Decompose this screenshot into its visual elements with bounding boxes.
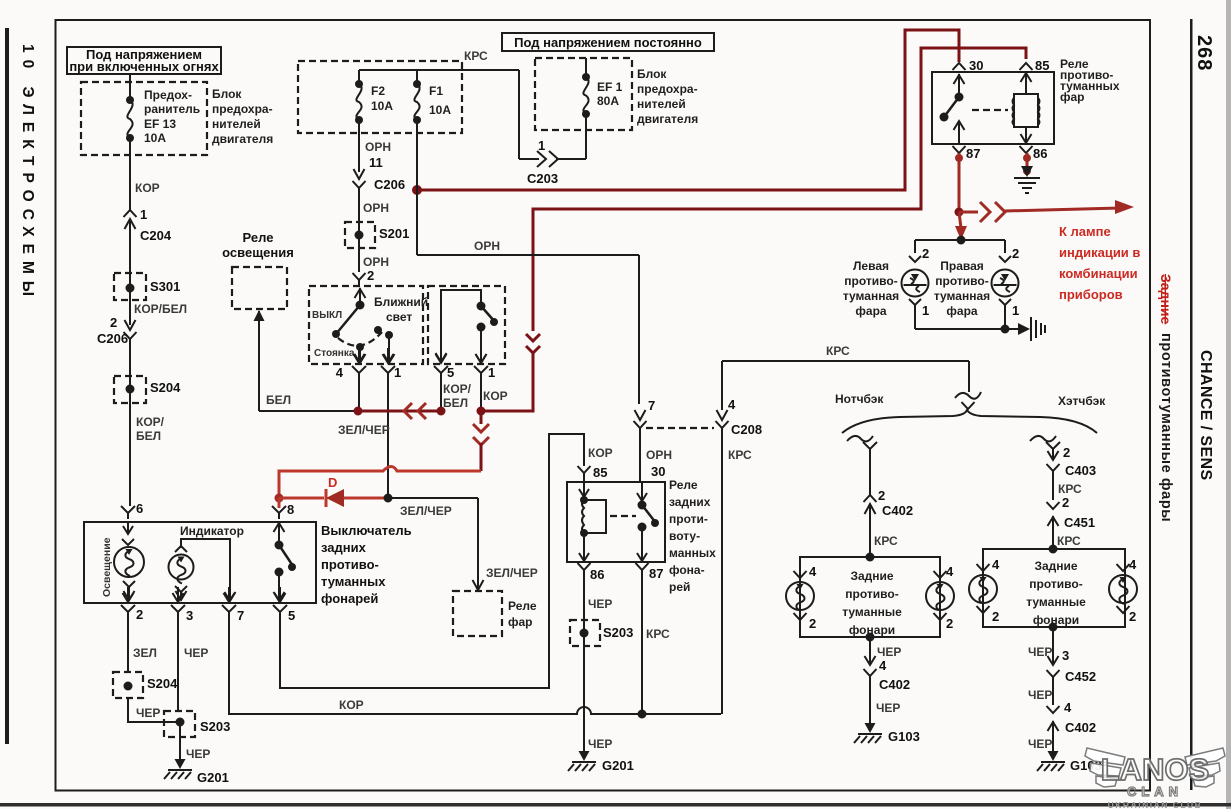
svg-text:268: 268 xyxy=(1193,35,1215,71)
svg-text:КРС: КРС xyxy=(1057,534,1081,548)
hatchback left lamp xyxy=(969,557,1000,624)
svg-text:Выключатель: Выключатель xyxy=(321,523,412,538)
red jumper pin5-pin4 xyxy=(358,403,446,419)
svg-text:2: 2 xyxy=(367,268,374,283)
svg-text:2: 2 xyxy=(878,488,885,503)
svg-text:КОР: КОР xyxy=(339,698,364,712)
switch pin 5 xyxy=(273,587,295,623)
rear fog lamps box notchback xyxy=(800,553,940,638)
svg-text:10А: 10А xyxy=(429,103,451,117)
svg-text:фара: фара xyxy=(946,304,978,318)
svg-text:Освещение: Освещение xyxy=(101,537,113,597)
svg-text:EF 13: EF 13 xyxy=(144,117,176,131)
svg-text:C204: C204 xyxy=(140,228,172,243)
svg-text:G103: G103 xyxy=(888,729,920,744)
svg-text:C402: C402 xyxy=(882,503,913,518)
svg-text:C451: C451 xyxy=(1064,515,1095,530)
svg-text:фона-: фона- xyxy=(669,563,705,577)
svg-text:Стоянка: Стоянка xyxy=(314,348,355,359)
svg-text:C402: C402 xyxy=(879,677,910,692)
svg-text:манных: манных xyxy=(669,546,716,560)
label Блок предохранителей двигателя (left) xyxy=(212,87,273,146)
svg-text:КОР: КОР xyxy=(588,446,613,460)
red node on БЕЛ wire xyxy=(354,407,363,416)
svg-text:Индикатор: Индикатор xyxy=(180,524,244,538)
svg-text:задних: задних xyxy=(321,540,367,555)
svg-text:противо-: противо- xyxy=(321,557,379,572)
svg-text:фар: фар xyxy=(1060,90,1085,104)
ground below 86 xyxy=(1014,166,1040,193)
svg-text:2: 2 xyxy=(1129,609,1136,624)
black wire F1 to C208 xyxy=(417,120,639,404)
wire ОРН 11 xyxy=(359,120,391,172)
svg-text:30: 30 xyxy=(651,464,665,479)
svg-text:4: 4 xyxy=(1129,557,1137,572)
svg-text:Под напряжением постоянно: Под напряжением постоянно xyxy=(514,35,702,50)
splice S201 xyxy=(345,201,409,248)
red indicator branch xyxy=(959,200,1134,222)
svg-text:туманные: туманные xyxy=(842,605,902,619)
red node on КОР wire xyxy=(477,407,486,416)
svg-text:проти-: проти- xyxy=(669,512,708,526)
wire to connector C203 xyxy=(519,70,586,186)
switch pin 1 КОР xyxy=(474,348,508,411)
svg-text:C203: C203 xyxy=(527,171,558,186)
svg-text:Реле: Реле xyxy=(508,599,537,613)
svg-text:S201: S201 xyxy=(379,226,409,241)
svg-text:C208: C208 xyxy=(731,422,762,437)
svg-text:1: 1 xyxy=(1012,303,1019,318)
svg-text:LANOS: LANOS xyxy=(1101,752,1210,787)
dashed link contact-coil xyxy=(972,109,1008,111)
svg-text:10 ЭЛЕКТРОСХЕМЫ: 10 ЭЛЕКТРОСХЕМЫ xyxy=(19,44,36,303)
illumination lamp xyxy=(114,522,144,600)
red note К лампе индикации xyxy=(1059,224,1140,302)
long КОР harness wire xyxy=(229,617,721,719)
rear relay coil xyxy=(579,496,606,561)
svg-text:Задние: Задние xyxy=(850,569,893,583)
wire КОР/БЕЛ xyxy=(134,302,187,316)
LANOS CLAN watermark xyxy=(1085,748,1225,787)
light switch dashed box right xyxy=(428,286,505,364)
bright red run to pin 8 with bridge xyxy=(275,467,482,503)
svg-text:F1: F1 xyxy=(429,84,443,98)
svg-text:6: 6 xyxy=(136,501,143,516)
svg-text:двигателя: двигателя xyxy=(212,132,273,146)
svg-text:85: 85 xyxy=(593,465,607,480)
svg-text:30: 30 xyxy=(969,58,983,73)
svg-text:10А: 10А xyxy=(371,99,393,113)
svg-text:ЧЕР: ЧЕР xyxy=(136,706,160,720)
svg-text:КРС: КРС xyxy=(826,344,850,358)
svg-text:КРС: КРС xyxy=(874,534,898,548)
relay pin 86 xyxy=(578,563,613,758)
svg-text:4: 4 xyxy=(728,397,736,412)
svg-text:Задние: Задние xyxy=(1034,559,1077,573)
red drop from КОР node xyxy=(473,411,489,471)
svg-text:противо-: противо- xyxy=(1029,577,1082,591)
Реле освещения dashed box xyxy=(222,230,294,309)
svg-text:ранитель: ранитель xyxy=(144,102,200,116)
header box: Под напряжением при включенных огнях xyxy=(67,47,221,74)
hatchback branch chain xyxy=(1030,436,1096,549)
switch pin 5 КОР/БЕЛ xyxy=(434,348,472,411)
svg-text:G201: G201 xyxy=(197,770,229,785)
relay pin 86 xyxy=(1020,146,1048,161)
rear fog relay box xyxy=(567,478,716,594)
svg-text:ЧЕР: ЧЕР xyxy=(588,597,612,611)
svg-text:задних: задних xyxy=(669,495,711,509)
rear relay contact xyxy=(637,482,659,561)
svg-text:1: 1 xyxy=(140,207,147,222)
hatchback right lamp xyxy=(1109,557,1137,624)
svg-text:2: 2 xyxy=(1012,246,1019,261)
svg-text:4: 4 xyxy=(992,557,1000,572)
svg-text:3: 3 xyxy=(1062,648,1069,663)
light switch dashed box left xyxy=(309,286,423,364)
red wire 86 to ground xyxy=(1023,153,1031,175)
svg-text:КОР/: КОР/ xyxy=(136,415,165,429)
junction ЗЕЛ/ЧЕР node xyxy=(384,494,393,503)
wire ОРН C208 to rear relay 30 xyxy=(640,428,672,482)
svg-text:87: 87 xyxy=(966,146,980,161)
svg-text:Блок: Блок xyxy=(637,67,667,81)
svg-text:освещения: освещения xyxy=(222,245,294,260)
svg-text:рей: рей xyxy=(669,580,690,594)
ground G201 rear relay xyxy=(568,737,634,773)
header box Под напряжением постоянно xyxy=(502,33,714,51)
svg-text:ЗЕЛ/ЧЕР: ЗЕЛ/ЧЕР xyxy=(400,504,452,518)
red wire C 87 to lamps xyxy=(955,153,968,240)
front fog relay box xyxy=(932,57,1120,144)
svg-text:БЕЛ: БЕЛ xyxy=(136,429,161,443)
svg-text:2: 2 xyxy=(922,246,929,261)
fuse EF13 10A xyxy=(126,74,200,145)
wire ЗЕЛ/ЧЕР to headlamp relay xyxy=(388,498,538,590)
relay pin 30 xyxy=(953,58,984,96)
svg-text:86: 86 xyxy=(1033,146,1047,161)
svg-text:приборов: приборов xyxy=(1059,287,1123,302)
splice S204 upper xyxy=(114,376,181,506)
relay pin 87 xyxy=(953,146,981,161)
switch pin 3 xyxy=(171,587,193,623)
svg-text:C402: C402 xyxy=(1065,720,1096,735)
relay pin 85 xyxy=(1020,58,1050,73)
svg-text:ВЫКЛ: ВЫКЛ xyxy=(312,310,342,321)
svg-text:7: 7 xyxy=(648,398,655,413)
indicator lamp xyxy=(169,546,194,600)
svg-text:индикации в: индикации в xyxy=(1059,245,1140,260)
svg-text:КРС: КРС xyxy=(1058,482,1082,496)
svg-text:противо-: противо- xyxy=(845,587,898,601)
svg-text:воту-: воту- xyxy=(669,529,700,543)
svg-text:КОР/: КОР/ xyxy=(443,382,472,396)
svg-text:Нотчбэк: Нотчбэк xyxy=(835,392,884,406)
svg-text:Блок: Блок xyxy=(212,87,242,101)
svg-text:туманных: туманных xyxy=(321,574,386,589)
svg-text:двигателя: двигателя xyxy=(637,112,698,126)
svg-text:10А: 10А xyxy=(144,131,166,145)
switch pin 8 xyxy=(272,498,294,519)
svg-text:2: 2 xyxy=(946,616,953,631)
relay pin 85 fork xyxy=(578,466,591,498)
svg-text:ОРН: ОРН xyxy=(363,255,389,269)
fuse EF1 80A xyxy=(582,58,623,159)
pin 6 of switch xyxy=(121,501,143,519)
switch pin 4 xyxy=(336,348,366,411)
svg-text:Левая: Левая xyxy=(853,259,889,273)
engine fuse box EF13 dashed xyxy=(81,82,207,155)
svg-text:КОР/БЕЛ: КОР/БЕЛ xyxy=(134,302,187,316)
svg-text:5: 5 xyxy=(447,365,454,380)
page bottom edge line xyxy=(0,803,1231,807)
svg-text:S204: S204 xyxy=(147,676,178,691)
svg-text:7: 7 xyxy=(237,608,244,623)
wire БЕЛ to lighting relay xyxy=(254,310,359,411)
splice S204 lower xyxy=(113,672,178,698)
splice S203 switch xyxy=(164,711,230,766)
svg-text:2: 2 xyxy=(809,616,816,631)
svg-text:Реле: Реле xyxy=(669,478,698,492)
svg-text:КРС: КРС xyxy=(646,627,670,641)
ground G201 switch xyxy=(164,754,229,785)
svg-text:C403: C403 xyxy=(1065,463,1096,478)
fog lamps bottom wire and chassis ground xyxy=(915,317,1045,341)
engine fuse box EF1 dashed xyxy=(535,58,632,130)
light switch contacts xyxy=(312,288,428,363)
left front fog lamp xyxy=(843,240,929,329)
hatchback ground chain xyxy=(1028,623,1096,759)
svg-text:ЗЕЛ/ЧЕР: ЗЕЛ/ЧЕР xyxy=(486,566,538,580)
wire КОР down from EF13 xyxy=(130,138,160,205)
diode D xyxy=(279,475,386,507)
feed wire КОР 85 from switch pin5 xyxy=(280,434,613,688)
svg-text:S203: S203 xyxy=(200,719,230,734)
fuse F2 10A xyxy=(355,70,393,124)
svg-text:87: 87 xyxy=(649,566,663,581)
wire КРС C208 pin4 down xyxy=(722,428,752,714)
right front fog lamp xyxy=(934,240,1019,329)
fuse box F1/F2 dashed xyxy=(298,61,462,133)
svg-text:4: 4 xyxy=(946,564,954,579)
svg-text:8: 8 xyxy=(287,502,294,517)
right margin rule xyxy=(1190,19,1193,790)
svg-text:80А: 80А xyxy=(597,94,619,108)
svg-text:противо-: противо- xyxy=(844,274,897,288)
svg-text:D: D xyxy=(328,475,337,490)
ground G103 notchback xyxy=(854,718,920,744)
rear fog switch contact xyxy=(274,522,297,601)
svg-text:туманная: туманная xyxy=(843,289,899,303)
svg-text:Предох-: Предох- xyxy=(144,88,192,102)
relay coil xyxy=(1013,72,1040,143)
svg-text:2: 2 xyxy=(992,609,999,624)
svg-text:Правая: Правая xyxy=(940,259,984,273)
svg-text:предохра-: предохра- xyxy=(212,102,273,116)
svg-text:S301: S301 xyxy=(150,279,180,294)
rear fog switch box xyxy=(84,522,412,606)
notchback branch chain xyxy=(847,436,913,557)
svg-text:2: 2 xyxy=(136,607,143,622)
svg-text:ОРН: ОРН xyxy=(646,448,672,462)
splice S203 rear xyxy=(570,620,633,646)
svg-text:G201: G201 xyxy=(602,758,634,773)
svg-text:ЗЕЛ: ЗЕЛ xyxy=(133,646,157,660)
svg-text:туманная: туманная xyxy=(934,289,990,303)
wire ЗЕЛ pin2 to S204 xyxy=(128,617,157,672)
connector C208 pin 7 xyxy=(634,398,656,428)
relay contact xyxy=(940,93,965,145)
svg-text:туманные: туманные xyxy=(1026,595,1086,609)
svg-text:C206: C206 xyxy=(374,177,405,192)
svg-text:при включенных огнях: при включенных огнях xyxy=(69,59,219,74)
svg-text:свет: свет xyxy=(386,310,412,324)
wire КРС top xyxy=(359,49,519,70)
svg-text:КОР: КОР xyxy=(135,181,160,195)
svg-text:ОРН: ОРН xyxy=(365,140,391,154)
notchback left lamp xyxy=(786,564,817,631)
svg-text:S203: S203 xyxy=(603,625,633,640)
body style split brace xyxy=(835,392,1106,433)
svg-text:КОР: КОР xyxy=(483,389,508,403)
wire КРС to rear harness xyxy=(722,344,981,409)
svg-text:К лампе: К лампе xyxy=(1059,224,1111,239)
svg-text:2: 2 xyxy=(1063,445,1070,460)
svg-text:БЕЛ: БЕЛ xyxy=(443,396,468,410)
connector C206 switch feed xyxy=(353,169,406,272)
svg-text:C452: C452 xyxy=(1065,669,1096,684)
svg-text:2: 2 xyxy=(110,315,117,330)
svg-text:КРС: КРС xyxy=(464,49,488,63)
C208 dashed link xyxy=(646,427,714,429)
svg-text:ЧЕР: ЧЕР xyxy=(588,737,612,751)
svg-text:Ближний: Ближний xyxy=(374,295,428,309)
svg-text:2: 2 xyxy=(1062,495,1069,510)
relay pin 87 xyxy=(636,563,671,714)
page right edge shadow xyxy=(1226,0,1231,809)
svg-text:CLAN: CLAN xyxy=(1127,784,1183,799)
svg-text:85: 85 xyxy=(1035,58,1049,73)
wire ЧЕР pin3 down xyxy=(178,617,208,712)
wire КОР/БЕЛ lower xyxy=(136,415,165,443)
svg-text:нителей: нителей xyxy=(637,97,686,111)
switch pin 7 xyxy=(222,587,244,623)
svg-text:КРС: КРС xyxy=(728,448,752,462)
svg-text:ЧЕР: ЧЕР xyxy=(876,701,900,715)
wire ОРН pin 2 xyxy=(353,255,390,286)
svg-text:86: 86 xyxy=(590,567,604,582)
splice S301 xyxy=(114,244,180,325)
svg-text:CHANCE / SENS: CHANCE / SENS xyxy=(1197,350,1214,481)
svg-text:предохра-: предохра- xyxy=(637,82,698,96)
svg-text:Реле: Реле xyxy=(243,230,274,245)
svg-text:фара: фара xyxy=(855,304,887,318)
Индикатор label + bracket xyxy=(180,524,244,601)
svg-text:противо-: противо- xyxy=(935,274,988,288)
svg-text:1: 1 xyxy=(488,365,495,380)
svg-text:ЧЕР: ЧЕР xyxy=(1028,737,1052,751)
svg-text:1: 1 xyxy=(538,138,545,153)
svg-text:1: 1 xyxy=(922,303,929,318)
svg-text:5: 5 xyxy=(288,608,295,623)
fog lamps top wire xyxy=(915,236,1005,245)
svg-text:Задние: Задние xyxy=(1158,274,1174,325)
wire ЧЕР S204 to S203 xyxy=(128,698,180,722)
svg-text:1: 1 xyxy=(394,365,401,380)
svg-text:ЧЕР: ЧЕР xyxy=(877,645,901,659)
switch pin 2 xyxy=(121,587,143,622)
dashed link coil-contact xyxy=(610,515,636,517)
svg-text:4: 4 xyxy=(336,365,344,380)
svg-text:Хэтчбэк: Хэтчбэк xyxy=(1058,394,1106,408)
svg-text:F2: F2 xyxy=(371,84,385,98)
svg-text:C206: C206 xyxy=(97,331,128,346)
headlamp switch contacts xyxy=(436,290,499,363)
svg-text:ЧЕР: ЧЕР xyxy=(184,646,208,660)
connector C206 pin 2 (left chain) xyxy=(97,315,137,376)
svg-text:ОРН: ОРН xyxy=(474,239,500,253)
svg-text:БЕЛ: БЕЛ xyxy=(266,393,291,407)
rear fog lamps box hatchback xyxy=(983,545,1125,628)
svg-text:ЧЕР: ЧЕР xyxy=(1028,688,1052,702)
svg-text:фар: фар xyxy=(508,615,533,629)
svg-text:комбинации: комбинации xyxy=(1059,266,1138,281)
notchback ground chain xyxy=(864,633,911,731)
notchback right lamp xyxy=(926,564,954,631)
fuse F1 10A xyxy=(413,70,451,124)
red wire B relay coil to КОР node xyxy=(481,48,1026,411)
svg-text:4: 4 xyxy=(1064,700,1072,715)
svg-text:3: 3 xyxy=(186,608,193,623)
svg-text:ЗЕЛ/ЧЕР: ЗЕЛ/ЧЕР xyxy=(338,423,390,437)
svg-text:противотуманные фары: противотуманные фары xyxy=(1158,333,1174,522)
svg-text:EF 1: EF 1 xyxy=(597,80,623,94)
svg-text:ЧЕР: ЧЕР xyxy=(186,747,210,761)
svg-text:11: 11 xyxy=(369,155,383,170)
label Блок предохранителей двигателя (right) xyxy=(637,67,698,126)
svg-text:нителей: нителей xyxy=(212,117,261,131)
Реле фар dashed box xyxy=(453,591,537,636)
svg-text:4: 4 xyxy=(809,564,817,579)
ground G103 hatchback xyxy=(1037,746,1102,773)
svg-text:фонарей: фонарей xyxy=(321,591,378,606)
switch pin 1 ЗЕЛ/ЧЕР xyxy=(338,348,401,498)
connector C204 pin 1 xyxy=(124,205,172,244)
svg-text:UKRAINIAN CLUB: UKRAINIAN CLUB xyxy=(1108,800,1203,809)
svg-text:ОРН: ОРН xyxy=(363,201,389,215)
page frame xyxy=(5,28,9,744)
connector C208 pin 4 xyxy=(716,361,763,437)
svg-text:S204: S204 xyxy=(150,380,181,395)
red wire A F1 node to relay pin 30 xyxy=(412,30,959,195)
svg-text:4: 4 xyxy=(879,658,887,673)
